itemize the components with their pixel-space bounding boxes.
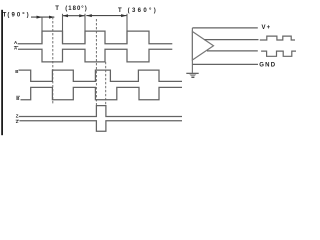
dimension T90 leader line (31, 16, 54, 18)
signal A waveform (18, 31, 173, 44)
extension tick at x127 (A rising edge) (126, 14, 128, 44)
output waveform glyph complement (261, 51, 296, 56)
dashed line at B rising edge x96.4 (95, 19, 97, 106)
output waveform glyph true (260, 36, 295, 40)
op-amp U1 triangle (192, 32, 213, 61)
svg-text:B: B (16, 96, 19, 101)
dimension T90 arrowhead at x42 (37, 16, 43, 19)
extension tick at x62.5 (A falling edge) (62, 14, 64, 44)
wire V+ supply (192, 27, 257, 29)
dimension T180 left arrowhead (63, 14, 69, 17)
dimension T360 line (86, 15, 126, 17)
wire GND (192, 63, 258, 65)
dimension T90 arrowhead at x54 (49, 16, 55, 19)
svg-text:Z: Z (16, 114, 19, 119)
svg-text:T: T (55, 6, 59, 12)
dashed line at B rising edge x52.8 (52, 17, 54, 104)
node label A-bar overline (14, 45, 18, 47)
node label B-bar overline (16, 95, 20, 97)
op-amp U1 vertical edge with power stubs (191, 28, 193, 73)
dimension T180 line (63, 15, 85, 17)
svg-text:(180°): (180°) (65, 6, 87, 12)
dashed line at A falling edge x105.7 (105, 62, 107, 105)
signal A-bar waveform (18, 49, 172, 62)
svg-text:B: B (15, 69, 18, 74)
svg-text:T: T (118, 8, 122, 14)
dimension T360 right arrowhead (121, 14, 127, 17)
svg-text:V+: V+ (262, 25, 272, 31)
svg-text:(90°): (90°) (7, 13, 30, 19)
dimension T360 left arrowhead (86, 14, 92, 17)
extension tick at x42 (A rising edge) (41, 17, 43, 44)
border frame left bar (1, 10, 3, 135)
svg-text:T: T (3, 13, 7, 19)
wire output complement (207, 50, 258, 52)
extension tick at x85 (A rising edge) (84, 14, 86, 44)
wire output true (204, 39, 258, 41)
signal Z-bar waveform (19, 121, 182, 131)
node label Z-bar overline (16, 119, 19, 121)
signal Z waveform (19, 106, 182, 117)
ground (186, 73, 198, 77)
svg-text:(360°): (360°) (128, 8, 159, 14)
svg-text:GND: GND (259, 63, 276, 69)
signal B waveform (19, 70, 183, 81)
svg-text:Z: Z (16, 119, 19, 124)
signal B-bar waveform (21, 87, 183, 99)
dimension T180 right arrowhead (79, 14, 85, 17)
